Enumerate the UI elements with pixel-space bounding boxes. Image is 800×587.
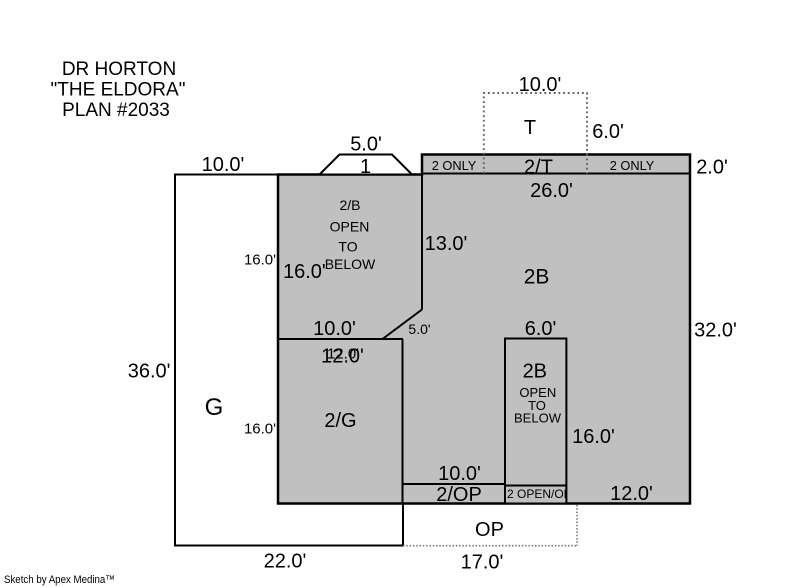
svg-text:16.0': 16.0' (572, 426, 615, 448)
svg-text:12.0': 12.0' (327, 346, 359, 363)
svg-text:12.0': 12.0' (610, 483, 653, 505)
svg-text:26.0': 26.0' (530, 180, 573, 202)
svg-text:16.0': 16.0' (283, 261, 326, 283)
wire: divider between 2/B and 2B (421, 155, 423, 310)
svg-text:36.0': 36.0' (128, 361, 171, 383)
svg-text:10.0': 10.0' (313, 318, 356, 340)
svg-text:32.0': 32.0' (694, 320, 737, 342)
svg-text:22.0': 22.0' (264, 551, 307, 573)
svg-text:2/G: 2/G (324, 410, 356, 432)
svg-text:5.0': 5.0' (350, 134, 382, 156)
svg-text:2/T: 2/T (524, 157, 553, 179)
svg-text:5.0': 5.0' (408, 321, 430, 337)
wire: right edge of 2/G (402, 339, 404, 504)
wire: 2 OPEN/OP strip top line (505, 485, 566, 487)
dormer trapezoid 1 (320, 155, 413, 175)
svg-text:2B: 2B (524, 266, 550, 289)
wire: diagonal cut of 2/B (383, 310, 423, 340)
svg-text:2/OP: 2/OP (436, 484, 482, 506)
title text block (51, 59, 186, 121)
svg-text:PLAN #2033: PLAN #2033 (62, 100, 170, 121)
svg-text:2B: 2B (523, 361, 547, 383)
OP porch dashed right edge (576, 505, 578, 546)
svg-text:TO: TO (338, 239, 357, 255)
svg-text:Sketch by Apex Medina™: Sketch by Apex Medina™ (4, 574, 115, 586)
svg-text:G: G (205, 394, 224, 421)
svg-text:2 ONLY: 2 ONLY (432, 158, 477, 173)
svg-text:6.0': 6.0' (592, 121, 624, 143)
room label 2/B stack (325, 197, 376, 272)
svg-text:BELOW: BELOW (325, 256, 376, 272)
inner 2B open-to-below box (505, 339, 566, 504)
svg-text:16.0': 16.0' (244, 252, 276, 269)
dotted extension of G bottom edge under OP (403, 545, 578, 547)
svg-text:16.0': 16.0' (244, 421, 276, 438)
svg-text:10.0': 10.0' (438, 463, 481, 485)
svg-text:17.0': 17.0' (461, 552, 504, 574)
svg-text:2.0': 2.0' (696, 157, 728, 179)
svg-text:2 OPEN/OP: 2 OPEN/OP (507, 487, 572, 501)
svg-text:1: 1 (360, 156, 371, 178)
svg-text:2 ONLY: 2 ONLY (610, 158, 655, 173)
svg-text:T: T (524, 117, 536, 139)
wire: 2/OP strip top line (403, 483, 506, 485)
main gray second-floor area (2/B + 2B + 2/G + strips) (278, 155, 690, 504)
wire: line under 2/B (10.0' / 12.0') (278, 338, 403, 340)
dashed T box (484, 93, 587, 174)
svg-text:OPEN: OPEN (330, 219, 370, 235)
svg-text:10.0': 10.0' (519, 74, 562, 96)
room G outline (garage, white) (175, 175, 403, 546)
svg-text:DR HORTON: DR HORTON (62, 59, 176, 80)
svg-text:"THE ELDORA": "THE ELDORA" (51, 80, 186, 101)
wire: 2/T strip bottom line (422, 173, 690, 175)
svg-text:13.0': 13.0' (425, 233, 468, 255)
svg-text:6.0': 6.0' (525, 318, 557, 340)
svg-text:2/B: 2/B (339, 197, 360, 213)
svg-text:OP: OP (475, 519, 504, 541)
svg-text:BELOW: BELOW (514, 411, 562, 426)
svg-text:10.0': 10.0' (202, 154, 245, 176)
